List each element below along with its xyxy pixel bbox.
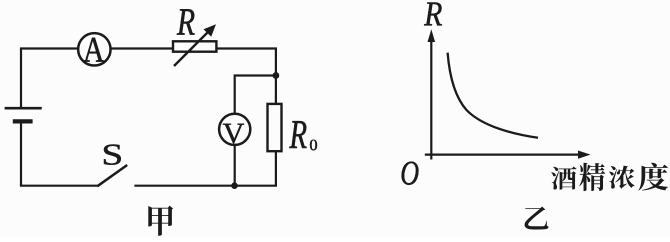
label R (rheostat) xyxy=(177,9,195,34)
wire: battery top to ammeter xyxy=(21,49,79,108)
rheostat arrow xyxy=(174,24,216,66)
curve: R vs alcohol concentration xyxy=(448,53,538,138)
rheostat R (slide resistor box) xyxy=(173,41,216,51)
wire: voltmeter branch xyxy=(235,76,276,114)
ammeter letter A xyxy=(83,38,104,62)
label R0 letter R xyxy=(289,121,306,148)
label du (concentration 4/4) xyxy=(638,163,668,191)
ammeter A1 xyxy=(78,33,110,65)
graph x-axis xyxy=(425,151,591,159)
label R (graph y-axis) xyxy=(424,3,442,26)
resistor R0 box xyxy=(268,104,282,151)
wire: rheostat to top-right corner down to R0 xyxy=(216,49,276,104)
wire: switch to battery bottom xyxy=(21,123,97,186)
switch S blade xyxy=(97,165,127,186)
label jing (alcohol 2/4) xyxy=(579,163,605,191)
label S (switch) xyxy=(104,144,121,164)
voltmeter V1 xyxy=(219,114,250,145)
voltmeter letter V xyxy=(223,124,244,144)
label O (origin) xyxy=(402,162,419,185)
node: junction dot bottom (voltmeter leg) xyxy=(231,182,238,189)
wire: R0 to bottom-right corner to switch xyxy=(134,151,276,186)
graph y-axis xyxy=(428,29,436,159)
label jia (circuit a) xyxy=(148,206,173,236)
wire: ammeter to rheostat xyxy=(110,47,173,49)
label nong (concentration 3/4) xyxy=(609,166,635,189)
node: junction dot (voltmeter tap) xyxy=(273,72,280,79)
wire: voltmeter to bottom junction xyxy=(234,146,236,186)
label R0 subscript 0 xyxy=(310,140,317,151)
battery short plate xyxy=(13,119,33,123)
label jiu (alcohol 1/4) xyxy=(551,167,576,190)
label yi (graph b) xyxy=(524,206,548,229)
battery long plate xyxy=(5,107,42,110)
